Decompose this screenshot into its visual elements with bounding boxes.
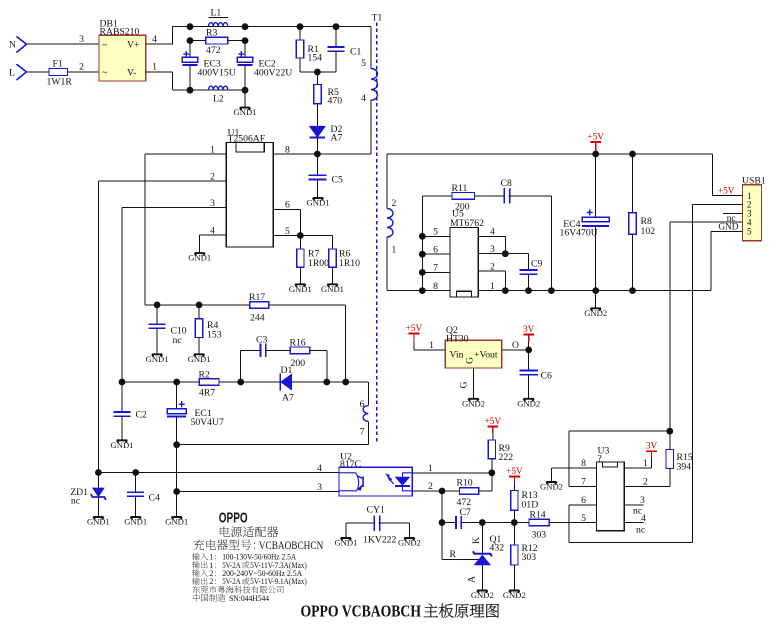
svg-text:2: 2 (643, 477, 648, 488)
svg-text:C9: C9 (531, 258, 542, 269)
svg-text:+5V: +5V (484, 417, 501, 427)
junction (242, 37, 249, 44)
svg-text:472: 472 (206, 45, 221, 56)
wire down to C7 node (441, 491, 443, 523)
wire Q2 Vout (502, 349, 529, 351)
svg-text:7: 7 (581, 477, 586, 488)
svg-text:V-: V- (127, 68, 136, 79)
U3 pin7 wire (569, 485, 597, 487)
wire aux winding return (177, 444, 369, 446)
wire C8 branch down (550, 196, 552, 291)
svg-text:3V: 3V (646, 442, 658, 452)
ground GND2 below R12 (509, 591, 519, 593)
svg-text:3: 3 (210, 198, 215, 209)
svg-text:102: 102 (641, 226, 656, 237)
svg-text:+5V: +5V (506, 467, 523, 477)
ground GND1 below EC2 (244, 90, 246, 107)
svg-text:4: 4 (361, 93, 366, 104)
USB1 pin5 wire (711, 230, 743, 232)
svg-text:C6: C6 (541, 371, 552, 382)
ground GND1 below C5 (313, 198, 323, 200)
junction (592, 287, 599, 294)
wire rail to USB pin1 (711, 154, 713, 196)
Q2 G pin (473, 368, 475, 399)
wire R16 right (310, 349, 327, 351)
svg-text:1: 1 (490, 281, 495, 292)
U1 pin5 wire (273, 235, 332, 237)
svg-text:6: 6 (285, 200, 290, 211)
svg-text:1: 1 (392, 244, 397, 255)
junction C4 (132, 469, 139, 476)
IC U5 box (450, 228, 478, 298)
junction (314, 69, 321, 76)
spec line 1 (192, 553, 200, 560)
ground GND1 below CY1 (341, 538, 351, 540)
U1 pin4 wire (200, 234, 227, 236)
svg-text:+Vout: +Vout (474, 349, 498, 360)
svg-text:3: 3 (317, 482, 322, 493)
U5 pin4 wire (478, 235, 505, 237)
ground GND1 below EC1 (172, 517, 182, 519)
svg-text:O: O (512, 340, 519, 351)
svg-text:6: 6 (433, 244, 438, 255)
svg-text:4R7: 4R7 (199, 388, 215, 399)
resistor R11 (422, 195, 452, 197)
wire D1 to T1 aux (292, 381, 369, 383)
resistor R5 (316, 72, 318, 85)
svg-text:153: 153 (207, 329, 222, 340)
svg-text:GND1: GND1 (124, 517, 147, 527)
svg-text:F1: F1 (53, 59, 63, 70)
U1 pin8 wire (273, 153, 317, 155)
wire F1 to DB1 pin2 (68, 71, 100, 73)
IC U3 (597, 462, 625, 531)
svg-text:2: 2 (79, 62, 84, 73)
svg-text:R17: R17 (249, 292, 265, 303)
svg-text:VCBAOBCHCN: VCBAOBCHCN (259, 538, 324, 552)
svg-text:GND1: GND1 (87, 517, 110, 527)
IC U5 MT6762 pins left (422, 235, 450, 237)
svg-text:5: 5 (285, 226, 290, 237)
svg-text:R2: R2 (199, 369, 210, 380)
label 电源适配器 (192, 526, 499, 620)
bridge rectifier DB1 (99, 35, 146, 81)
capacitor C8 (503, 188, 505, 204)
wire pin1 down (144, 154, 146, 305)
junction Q1 K (479, 519, 486, 526)
svg-text:+5V: +5V (587, 132, 604, 142)
resistor R15 (669, 431, 671, 449)
U3 pin1 wire (624, 467, 651, 469)
junction EC1 (173, 379, 180, 386)
svg-text:400V15U: 400V15U (198, 67, 236, 78)
ground GND1 U1 pin4 (195, 253, 205, 255)
diode D2 (310, 126, 326, 137)
resistor R13 (511, 491, 518, 511)
T1 secondary winding pins 2-1 (386, 154, 388, 209)
wire R1-C1 bottom (300, 71, 336, 73)
ground GND2 below C6 (524, 399, 534, 401)
U2 pin1 wire (412, 472, 492, 474)
U2 pin2 wire (412, 490, 459, 492)
wire to Q2 Vin (414, 349, 445, 351)
wire to U2 pin4 (98, 472, 339, 474)
capacitor C3 (240, 350, 242, 382)
wire L to F1 (27, 71, 50, 73)
wire GND2 rail (387, 290, 711, 292)
junction C3 branch (237, 379, 244, 386)
svg-text:2: 2 (209, 577, 213, 586)
svg-text:N: N (9, 40, 16, 51)
U5 pin2 wire (478, 270, 505, 272)
resistor R9 (488, 440, 495, 459)
svg-text:GND: GND (718, 223, 738, 233)
wire frame bottom (569, 542, 693, 544)
spec line 4 (192, 577, 200, 584)
capacitor CY1 (346, 522, 374, 524)
svg-text:303: 303 (522, 552, 537, 563)
svg-text:2: 2 (210, 171, 215, 182)
svg-text:432: 432 (490, 542, 505, 553)
svg-text:L: L (9, 67, 15, 78)
capacitor C4 (135, 473, 137, 493)
ground GND1 below C10 (152, 354, 162, 356)
svg-text:T1: T1 (372, 12, 383, 23)
junction C10 (154, 302, 161, 309)
svg-text:GND2: GND2 (462, 398, 485, 408)
svg-text:GND1: GND1 (111, 440, 134, 450)
wire bottom rail (173, 89, 245, 91)
svg-text:C2: C2 (136, 409, 147, 420)
wire down to D1 node (345, 305, 347, 382)
U1 pin2 wire (98, 180, 226, 182)
transformer T1 core (376, 23, 378, 445)
svg-text:MT6762: MT6762 (450, 218, 484, 229)
junction 3V node (525, 347, 532, 354)
svg-text:L2: L2 (213, 94, 224, 105)
svg-text:SN:044H544: SN:044H544 (229, 594, 270, 603)
ground GND1 below R4 (194, 354, 204, 356)
U2 light arrows (388, 476, 394, 484)
svg-text:1: 1 (643, 458, 648, 469)
wire C8 right (509, 195, 552, 197)
U2 phototransistor (339, 473, 359, 491)
svg-text:GND2: GND2 (503, 590, 526, 600)
svg-text:16V470U: 16V470U (560, 227, 598, 238)
junction (439, 488, 446, 495)
resistor R8 (629, 151, 636, 158)
ground GND2 below CY1 (404, 538, 414, 540)
svg-text:5: 5 (747, 227, 752, 237)
svg-text:222: 222 (499, 452, 514, 463)
resistor R12 (513, 523, 515, 546)
svg-text:244: 244 (250, 312, 265, 323)
svg-text:R: R (450, 549, 457, 560)
svg-text:R3: R3 (206, 28, 217, 39)
resistor R10 (460, 488, 479, 495)
optocoupler U2 817C (339, 467, 412, 496)
svg-text:GND1: GND1 (334, 538, 357, 548)
svg-text:C1: C1 (350, 46, 361, 57)
ground GND1 below R7 (295, 284, 305, 286)
svg-text:1R00: 1R00 (308, 258, 329, 269)
svg-text:200: 200 (291, 358, 306, 369)
USB1 pin3 nc stub (723, 212, 743, 214)
svg-text:GND1: GND1 (307, 198, 330, 208)
wire R11 to C8 (475, 195, 505, 197)
junction R16 branch (323, 379, 330, 386)
svg-text:C4: C4 (149, 492, 160, 503)
svg-text:8: 8 (285, 144, 290, 155)
maker line (192, 586, 200, 594)
junction R15 top (666, 428, 673, 435)
wire R9 node down (491, 473, 493, 491)
resistor R4 (198, 305, 200, 319)
svg-text:5: 5 (361, 58, 366, 69)
svg-text:nc: nc (71, 496, 80, 507)
USB1 pin2 wire (693, 203, 743, 205)
wire to T1 pin5 (370, 27, 372, 69)
svg-text:R16: R16 (290, 338, 306, 349)
wire N to DB1 pin3 (27, 43, 100, 45)
resistor R16 (290, 347, 309, 354)
junction R17 branch (342, 379, 349, 386)
svg-text:3: 3 (490, 244, 495, 255)
svg-text:+5V: +5V (718, 186, 735, 196)
wire frame left upper (568, 431, 570, 486)
ground GND2 U3 pin8 (546, 482, 556, 484)
zener diode ZD1 (97, 473, 99, 489)
spec line 3 (192, 569, 200, 576)
svg-text:A: A (467, 576, 478, 583)
junction ZD1 (95, 469, 102, 476)
ground GND2 below EC4 (591, 308, 601, 310)
svg-text:4: 4 (210, 226, 215, 237)
capacitor C9 (528, 254, 530, 270)
capacitor EC4 (595, 154, 597, 217)
svg-text:5: 5 (433, 227, 438, 238)
capacitor C2 (121, 382, 123, 412)
svg-text:GND1: GND1 (188, 354, 211, 364)
ground GND2 below Q1 (477, 591, 487, 593)
T1 primary winding pins 5-4 (371, 69, 377, 101)
svg-text:Vin: Vin (450, 349, 464, 360)
junction (187, 37, 194, 44)
wire V+ out (146, 43, 173, 45)
junction (187, 87, 194, 94)
svg-text:1W1R: 1W1R (47, 77, 73, 88)
regulator Q2 HT30 (445, 340, 502, 368)
capacitor EC3 (189, 41, 191, 58)
USB1 pin4 wire (670, 221, 743, 223)
svg-text:HT30: HT30 (446, 334, 469, 345)
U1 pin3 wire (122, 207, 226, 209)
svg-text:GND1: GND1 (188, 253, 211, 263)
svg-text:T2506AF: T2506AF (228, 133, 266, 144)
svg-text:400V22U: 400V22U (254, 67, 292, 78)
junction R13 R12 (511, 519, 518, 526)
capacitor EC2 (244, 41, 246, 58)
capacitor C10 (156, 305, 158, 324)
svg-text:C7: C7 (460, 507, 471, 518)
svg-text:1: 1 (429, 340, 434, 351)
svg-text:C5: C5 (332, 175, 343, 186)
svg-text:6: 6 (360, 399, 365, 410)
resistor R1 (297, 23, 304, 30)
Q1 R wire (442, 558, 479, 560)
wire C7 to R14 (460, 522, 529, 524)
wire pin3 node to R2 (122, 381, 199, 383)
label 充电器型号 VCBAOBCHCN (193, 539, 204, 550)
resistor R2 (199, 379, 219, 386)
ground GND1 below R6 (327, 284, 337, 286)
wire top rail (173, 26, 371, 28)
fuse F1 (49, 68, 68, 75)
junction R9 U2p1 (488, 469, 495, 476)
svg-text:1R10: 1R10 (339, 258, 360, 269)
wire EC1 node to U2 pin3 (177, 491, 339, 493)
wire to T1 pin4 (370, 100, 372, 154)
junction pin8 node (314, 151, 321, 158)
svg-text:CY1: CY1 (367, 505, 385, 516)
svg-text:8: 8 (581, 458, 586, 469)
svg-text:OPPO VCBAOBCH: OPPO VCBAOBCH (301, 602, 422, 621)
wire R17 right (269, 304, 346, 306)
svg-text:GND2: GND2 (584, 308, 607, 318)
svg-text:G: G (459, 382, 470, 389)
ground GND1 below C2 (117, 440, 127, 442)
U2 led (403, 473, 413, 491)
svg-text:R11: R11 (452, 183, 468, 194)
svg-text:RABS210: RABS210 (100, 26, 140, 37)
svg-text:R10: R10 (457, 478, 473, 489)
capacitor C1 (333, 23, 340, 30)
svg-text:154: 154 (308, 53, 323, 64)
shunt regulator Q1 432 (481, 523, 483, 554)
junction R4 (196, 302, 203, 309)
svg-text:USB1: USB1 (742, 175, 766, 186)
U3 pin4 nc stub (624, 522, 643, 524)
svg-text:R14: R14 (530, 510, 546, 521)
svg-text:4: 4 (152, 34, 157, 45)
U5 pin3 wire (478, 253, 528, 255)
junction (297, 232, 304, 239)
junction (119, 379, 126, 386)
svg-text:1: 1 (152, 62, 157, 73)
svg-text:4: 4 (641, 513, 646, 524)
svg-text:5: 5 (581, 513, 586, 524)
svg-text:OPPO: OPPO (219, 511, 248, 527)
svg-text:4: 4 (490, 227, 495, 238)
svg-text:2: 2 (392, 198, 397, 209)
IC U1 T2506AF (226, 142, 273, 247)
capacitor C6 (528, 350, 530, 371)
junction (242, 23, 249, 30)
svg-text:GND2: GND2 (398, 538, 421, 548)
junction aux return (173, 441, 180, 448)
ground GND1 below ZD1 (93, 517, 103, 519)
svg-text:5V-2A: 5V-2A (222, 577, 241, 586)
svg-text:2: 2 (490, 261, 495, 272)
svg-text:G: G (465, 357, 476, 364)
title 主板原理图 (424, 604, 438, 618)
svg-text:~: ~ (102, 40, 107, 51)
resistor R7 (297, 249, 304, 267)
USB1 pin1 wire (712, 195, 742, 197)
svg-text:nc: nc (173, 335, 182, 346)
svg-text:817C: 817C (340, 459, 361, 470)
junction (187, 23, 194, 30)
resistor R17 (250, 302, 269, 309)
svg-text:V+: V+ (127, 40, 139, 51)
svg-text:K: K (471, 537, 482, 544)
svg-text:7: 7 (360, 426, 365, 437)
svg-text:7: 7 (433, 263, 438, 274)
connector L (17, 64, 27, 80)
U1 pin1 wire (145, 153, 226, 155)
svg-text:C3: C3 (256, 335, 267, 346)
connector N (17, 37, 27, 53)
U3 pin6 wire (569, 504, 597, 506)
junction (242, 87, 249, 94)
svg-text:3V: 3V (523, 325, 535, 335)
svg-text:303: 303 (532, 530, 547, 541)
wire U1 pin1 to R17 (145, 304, 250, 306)
svg-text:GND2: GND2 (517, 398, 540, 408)
svg-text:~: ~ (102, 68, 107, 79)
wire EC4 to GND2 (595, 291, 597, 308)
made in china line (193, 594, 200, 602)
wire V- out (146, 71, 173, 73)
svg-text:GND1: GND1 (165, 517, 188, 527)
resistor R14 (529, 519, 549, 526)
resistor R6 (332, 236, 334, 250)
T1 aux winding pins 6-7 (367, 382, 369, 406)
svg-text:A7: A7 (331, 133, 343, 144)
svg-text:470: 470 (328, 96, 343, 107)
U3 pin8 wire (552, 467, 597, 469)
svg-text:GND1: GND1 (146, 354, 169, 364)
svg-text:L1: L1 (211, 8, 222, 19)
capacitor C7 (441, 523, 443, 560)
inductor L2 (209, 86, 228, 90)
capacitor C5 (316, 154, 318, 175)
wire U3 frame top (569, 430, 670, 432)
junction C7 (439, 519, 446, 526)
wire pin3 down (121, 208, 123, 382)
ground GND2 Q2 (468, 399, 478, 401)
svg-text:50V4U7: 50V4U7 (191, 417, 225, 428)
svg-text:8: 8 (433, 281, 438, 292)
svg-text:nc: nc (636, 524, 645, 535)
svg-text:GND1: GND1 (321, 284, 344, 294)
svg-text:+5V: +5V (406, 324, 423, 334)
svg-text:?: ? (598, 453, 602, 464)
wire R2 to D1 (219, 381, 280, 383)
svg-text:A7: A7 (282, 393, 294, 404)
USB1 connector (743, 185, 762, 241)
svg-text:6: 6 (581, 495, 586, 506)
svg-text:4: 4 (317, 463, 322, 474)
U3 pin2 wire (624, 485, 670, 487)
svg-text:GND2: GND2 (540, 482, 563, 492)
wire pin2 down (97, 181, 99, 473)
resistor R3 (190, 40, 206, 42)
wire rail to USB pin5 (710, 231, 712, 290)
svg-text:5V-11V-9.1A(Max): 5V-11V-9.1A(Max) (250, 577, 307, 586)
capacitor EC1 (176, 382, 178, 409)
svg-text:1KV222: 1KV222 (363, 535, 397, 546)
